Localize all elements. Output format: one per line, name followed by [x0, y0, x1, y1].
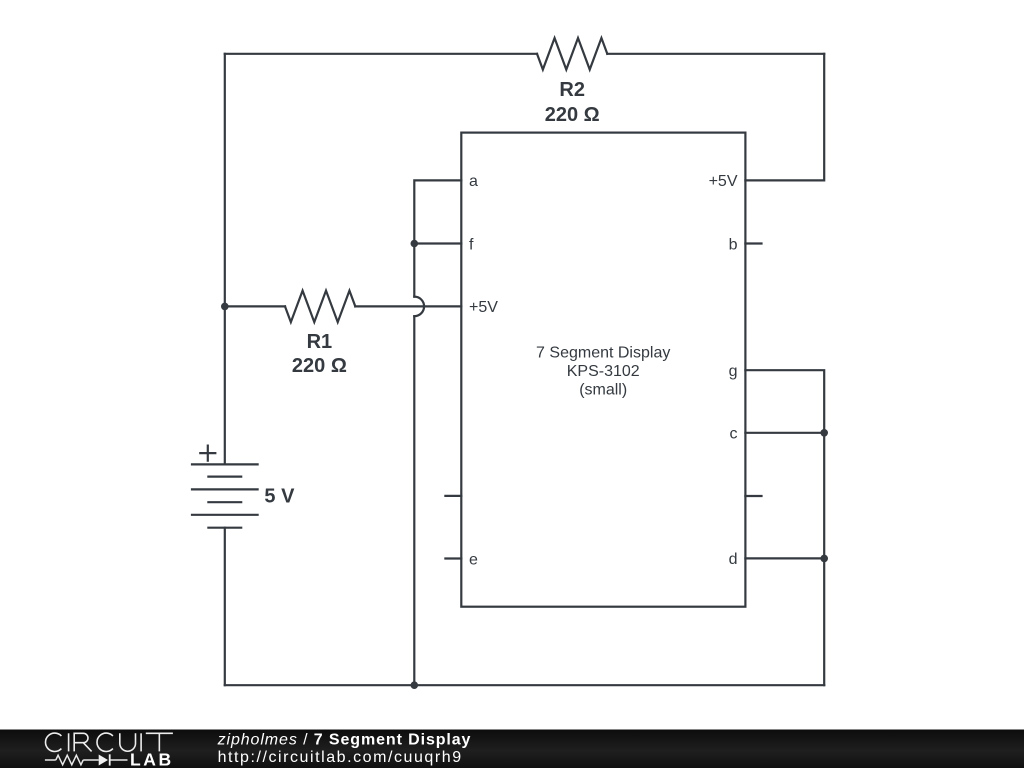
svg-text:zipholmes / 7 Segment Display: zipholmes / 7 Segment Display — [217, 732, 472, 749]
svg-text:http://circuitlab.com/cuuqrh9: http://circuitlab.com/cuuqrh9 — [218, 749, 463, 766]
svg-text:7 Segment Display: 7 Segment Display — [536, 344, 670, 361]
footer bar — [0, 730, 1024, 768]
logo CIRCUIT letters — [45, 733, 172, 751]
wire battery bottom — [224, 528, 226, 686]
wire bottom horizontal — [225, 684, 824, 686]
svg-text:a: a — [469, 173, 478, 190]
junction node c — [820, 429, 828, 437]
wire hop over R1 wire — [414, 297, 424, 317]
svg-text:R1: R1 — [307, 331, 333, 353]
svg-text:+5V: +5V — [709, 173, 738, 190]
wire pin d — [745, 557, 824, 559]
pin stub e — [445, 557, 461, 559]
wire pin a — [414, 180, 461, 296]
pin stub right row6 — [745, 495, 761, 497]
wire right drop to +5V pin — [745, 54, 824, 181]
junction node R1-left — [221, 303, 229, 311]
wire pin f — [414, 242, 461, 244]
logo symbol wire — [45, 759, 128, 761]
box 7-segment display U1 — [461, 133, 745, 607]
wire R1 left — [225, 305, 285, 307]
svg-text:5 V: 5 V — [264, 486, 295, 508]
svg-text:+5V: +5V — [469, 299, 498, 316]
svg-text:b: b — [729, 236, 738, 253]
battery plus sign — [200, 446, 215, 461]
svg-text:R2: R2 — [559, 79, 585, 101]
logo symbol resistor — [56, 755, 83, 765]
svg-text:e: e — [469, 551, 478, 568]
svg-text:(small): (small) — [579, 382, 627, 399]
wire top-left horizontal — [225, 53, 537, 55]
pin stub left row6 — [445, 495, 461, 497]
junction node bottom — [411, 681, 419, 689]
pin stub b — [745, 242, 761, 244]
wire mid vertical lower — [413, 316, 415, 685]
svg-text:f: f — [469, 236, 474, 253]
svg-text:c: c — [730, 426, 738, 443]
wire left vertical — [224, 54, 226, 465]
wire pin c — [745, 432, 824, 434]
svg-text:LAB: LAB — [130, 750, 174, 768]
svg-text:g: g — [729, 363, 738, 380]
battery V1 plates — [192, 464, 258, 527]
wire pin g — [745, 370, 824, 685]
wire R1 right to +5V pin — [355, 305, 461, 307]
resistor R1 — [285, 291, 355, 323]
junction node f — [411, 240, 419, 248]
svg-text:d: d — [729, 551, 738, 568]
svg-text:220 Ω: 220 Ω — [292, 355, 347, 377]
logo symbol diode — [99, 755, 108, 766]
resistor R2 — [537, 38, 607, 70]
svg-text:220 Ω: 220 Ω — [545, 104, 600, 126]
wire top-right horizontal — [607, 53, 824, 55]
junction node d — [820, 555, 828, 563]
svg-text:KPS-3102: KPS-3102 — [567, 363, 640, 380]
